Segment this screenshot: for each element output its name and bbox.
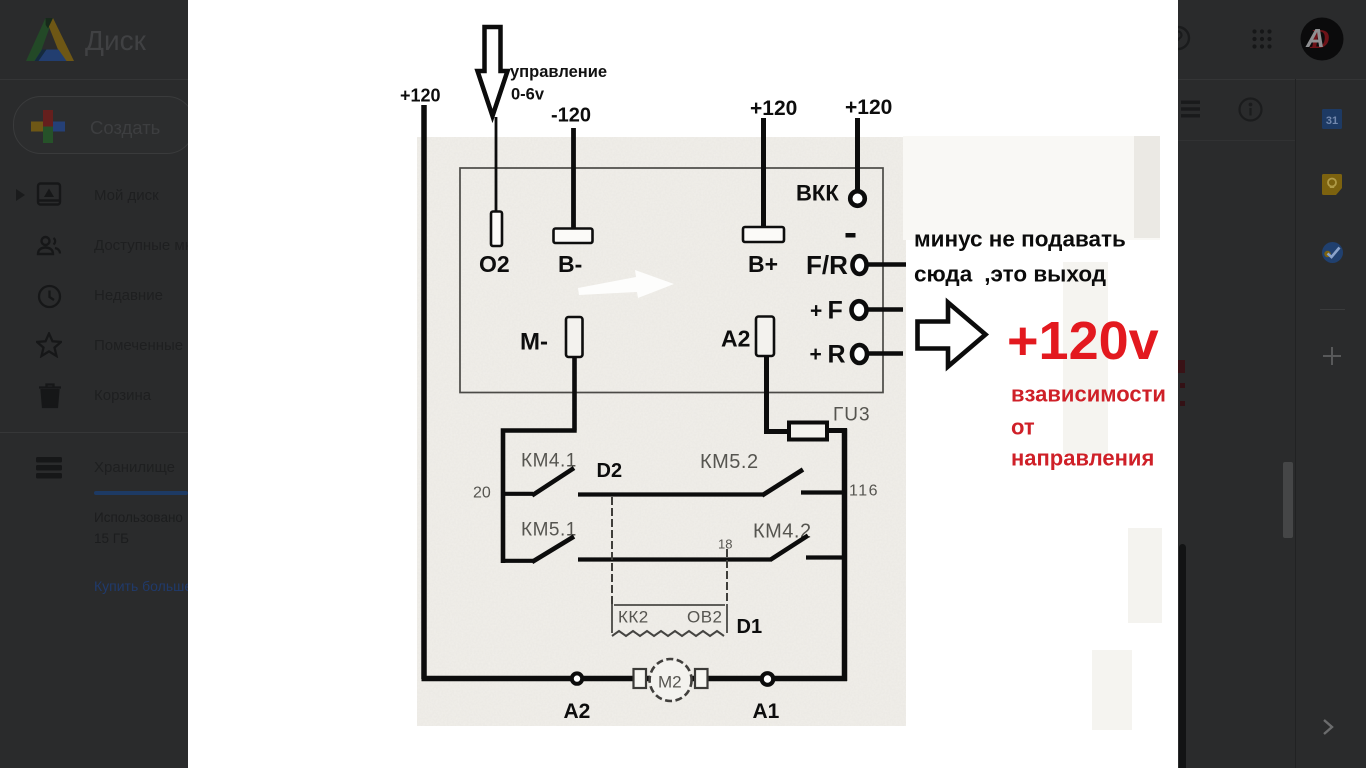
toolbar row: list + info icons <box>1181 99 1201 119</box>
svg-text:управление: управление <box>510 63 607 81</box>
terminal F/R <box>846 233 856 238</box>
contact KM5.1 <box>503 559 533 563</box>
top bar divider <box>0 79 1366 80</box>
contact KM5.2 <box>762 470 803 496</box>
svg-text:ГU3: ГU3 <box>833 405 871 426</box>
svg-text:F/R: F/R <box>806 250 848 280</box>
contact KM4.1 <box>503 492 533 496</box>
svg-text:+: + <box>810 300 822 323</box>
pin M- <box>566 317 583 357</box>
wire B+ feed <box>761 118 766 229</box>
terminal A1 <box>762 673 774 685</box>
wire M- drop <box>503 357 577 563</box>
svg-text:КМ5.2: КМ5.2 <box>700 451 759 473</box>
svg-text:+120: +120 <box>845 96 892 119</box>
partial help icon at image edge <box>1165 25 1193 53</box>
svg-text:A2: A2 <box>564 700 591 723</box>
apps grid <box>1250 27 1274 51</box>
tasks icon <box>1322 242 1343 263</box>
contact KM4.2 <box>770 536 808 561</box>
svg-text:18: 18 <box>718 537 732 552</box>
whiteout blob <box>578 270 674 298</box>
pin B+ <box>743 227 784 242</box>
svg-text:минус не подавать: минус не подавать <box>914 227 1126 252</box>
terminal A2 (motor) <box>572 673 582 683</box>
pin O2 <box>491 212 502 247</box>
svg-text:B+: B+ <box>748 251 778 277</box>
pin A2 <box>756 317 774 357</box>
plus <box>1323 347 1341 365</box>
preview scrollbar <box>1179 544 1186 768</box>
scan paper texture <box>417 137 906 726</box>
create button pill <box>13 96 195 154</box>
menu rows <box>0 160 188 440</box>
wire BKK feed <box>855 118 860 192</box>
wire D2 sense lead <box>611 497 613 604</box>
svg-text:+120: +120 <box>750 97 797 120</box>
svg-text:0-6v: 0-6v <box>511 86 545 104</box>
chevron <box>1320 718 1336 736</box>
wire fuse to right rail <box>827 428 847 433</box>
svg-text:направления: направления <box>1011 446 1154 471</box>
svg-text:КМ4.1: КМ4.1 <box>521 451 577 472</box>
storage section <box>0 440 188 768</box>
svg-text:-120: -120 <box>551 105 591 127</box>
svg-text:М2: М2 <box>658 673 682 692</box>
wire rail 2 <box>578 557 771 561</box>
svg-text:+120v: +120v <box>1007 311 1159 371</box>
wire A2 drop to fuse <box>764 356 790 432</box>
svg-text:D2: D2 <box>597 460 623 482</box>
wire control lead <box>495 117 498 212</box>
svg-text:A2: A2 <box>721 326 750 352</box>
motor M2 <box>634 669 647 688</box>
arrow control input <box>478 27 508 116</box>
svg-text:+120: +120 <box>400 86 441 106</box>
pin B- <box>554 229 593 244</box>
fuse GU3 <box>789 423 827 440</box>
svg-text:КК2: КК2 <box>618 608 649 627</box>
svg-text:20: 20 <box>473 485 491 502</box>
svg-text:A: A <box>1305 23 1325 53</box>
drive logo <box>26 18 74 62</box>
svg-text:M-: M- <box>520 329 548 356</box>
wire right rail <box>842 429 848 682</box>
wire 18 sense lead <box>726 549 728 604</box>
svg-text:ВКК: ВКК <box>796 181 839 206</box>
wire left +120 rail <box>421 105 427 679</box>
svg-text:A1: A1 <box>753 700 780 723</box>
svg-text:ОВ2: ОВ2 <box>687 608 723 627</box>
svg-text:взависимости: взависимости <box>1011 382 1166 407</box>
sidebar divider <box>0 432 188 433</box>
list scrollbar thumb (dimmed) <box>1283 462 1293 538</box>
svg-text:сюда,это выход: сюда,это выход <box>914 262 1106 287</box>
terminal BKK <box>850 191 865 206</box>
relay coil D1 (KK2 / OB2) <box>612 604 727 633</box>
svg-text:R: R <box>828 341 846 369</box>
arrow output <box>918 303 986 367</box>
svg-text:F: F <box>828 297 843 325</box>
svg-text:31: 31 <box>1326 115 1338 127</box>
wire B- feed <box>571 128 576 230</box>
wire rail 1 <box>578 492 763 496</box>
svg-text:O2: O2 <box>479 251 510 277</box>
wire bottom motor rail <box>422 676 848 682</box>
calendar icon <box>1322 109 1342 129</box>
keep icon <box>1322 174 1342 195</box>
side panel divider <box>1295 79 1296 768</box>
avatar <box>1300 17 1344 61</box>
svg-text:от: от <box>1011 415 1035 440</box>
svg-text:D1: D1 <box>737 616 763 638</box>
svg-text:B-: B- <box>558 251 582 277</box>
faint red glyphs behind overlay <box>1178 360 1185 373</box>
svg-text:116: 116 <box>849 483 879 500</box>
svg-text:+: + <box>810 343 822 366</box>
controller box <box>460 168 883 393</box>
